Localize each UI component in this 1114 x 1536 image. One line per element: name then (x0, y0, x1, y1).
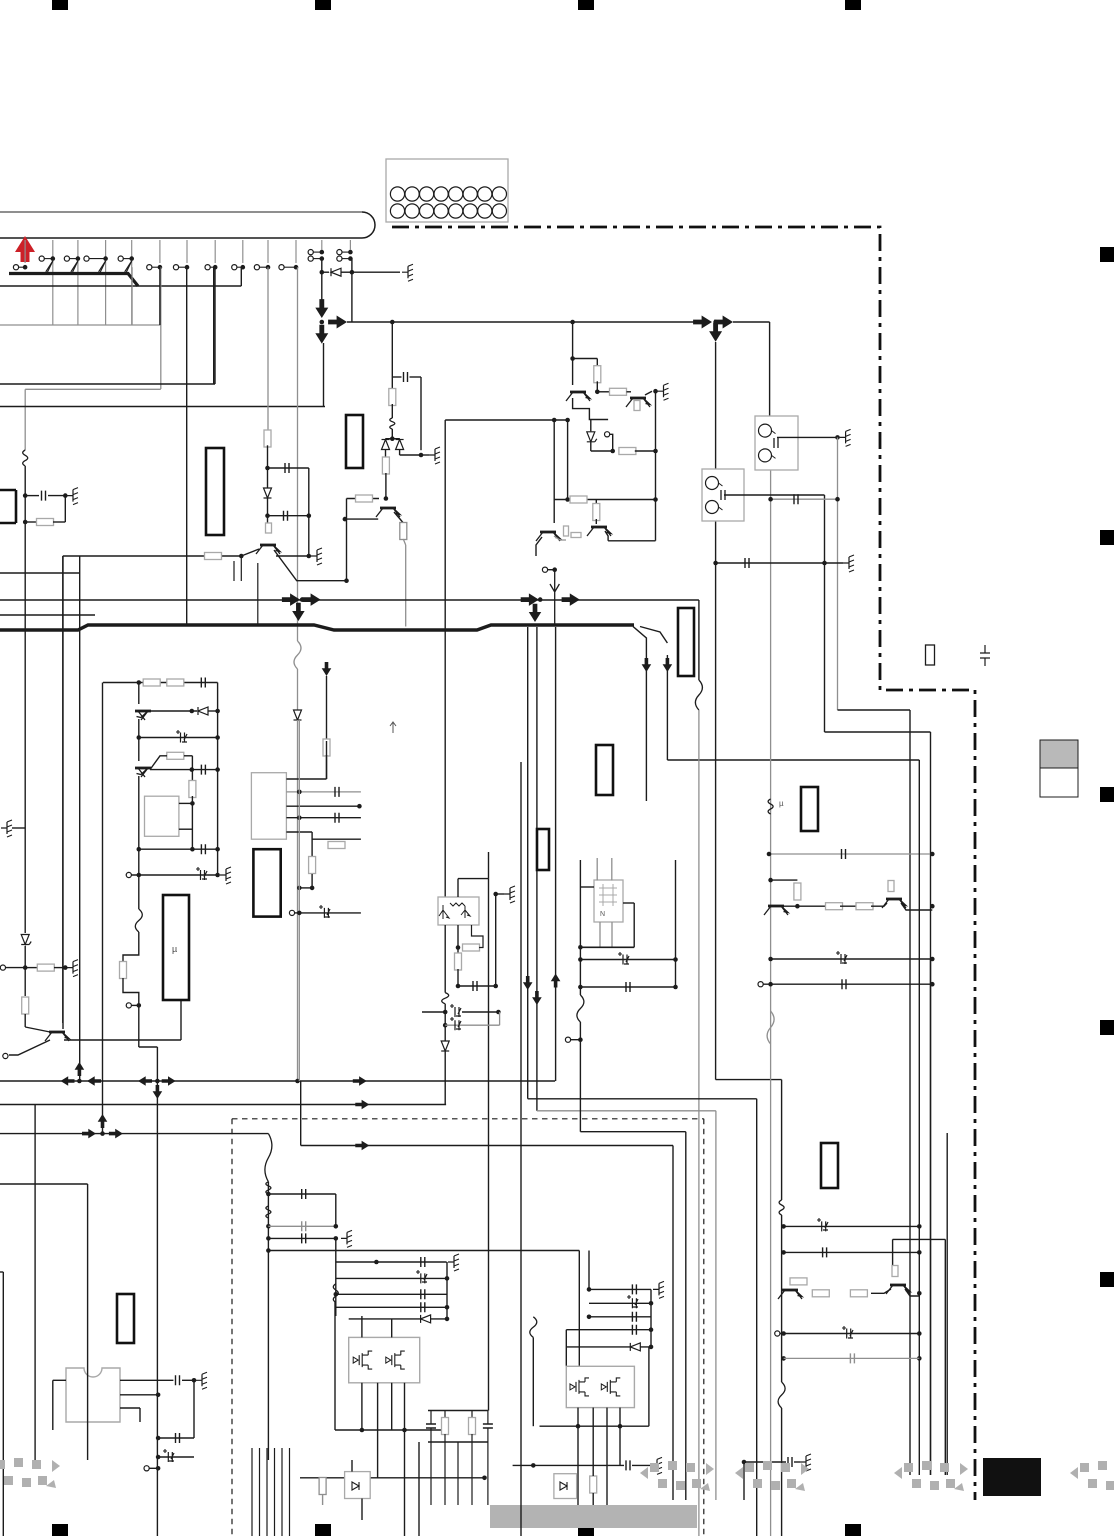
junction J24 (570, 320, 575, 325)
wire (918, 760, 920, 1475)
junction J118 (402, 1428, 407, 1433)
wire (139, 1046, 158, 1048)
junction J21 (320, 270, 325, 275)
signal arrow (562, 593, 580, 605)
pin P16 (0, 965, 5, 970)
wire (349, 240, 351, 250)
capacitor C4 (404, 372, 408, 382)
registration mark (1100, 787, 1114, 802)
junction J116 (445, 1317, 450, 1322)
wire (347, 498, 380, 500)
wire (400, 454, 421, 456)
pin P8 (205, 265, 210, 270)
wire (590, 442, 592, 451)
resistor R41 (564, 526, 569, 536)
junction J100 (578, 1037, 583, 1042)
ground (402, 264, 413, 281)
junction J99 (673, 985, 678, 990)
junction J9 (241, 265, 246, 270)
capacitor C13 (201, 844, 205, 854)
junction J20 (63, 965, 68, 970)
wire (597, 391, 609, 393)
flow arrow (550, 570, 559, 626)
wire (361, 1316, 363, 1337)
wire (24, 522, 26, 933)
resistor R5 (266, 523, 272, 533)
junction J66 (100, 1131, 105, 1136)
wire (784, 1357, 920, 1359)
wire (592, 1465, 594, 1476)
wire (260, 266, 269, 268)
resistor R22 (309, 857, 316, 874)
junction J137 (781, 1356, 786, 1361)
main power bus (0, 625, 634, 630)
wire (0, 406, 325, 408)
wire (156, 1047, 158, 1536)
wire (781, 1408, 783, 1536)
signal arrow (693, 316, 712, 329)
wire (457, 1442, 459, 1505)
capacitor C12 (201, 765, 205, 775)
wire (335, 1238, 337, 1316)
wire (471, 1434, 473, 1442)
junction J93 (496, 1010, 501, 1015)
wire (715, 1111, 717, 1500)
capacitor C2 (285, 463, 289, 473)
wire (488, 879, 490, 1411)
wire (444, 1051, 446, 1105)
signal arrow (87, 1076, 101, 1086)
inductor L1 (23, 450, 28, 466)
wire (784, 1225, 920, 1227)
capacitor C41 (817, 1218, 828, 1231)
wire (0, 1183, 88, 1185)
capacitor C20 (450, 1017, 461, 1030)
wire (540, 1425, 649, 1427)
line filter T2 (702, 469, 744, 521)
wire (77, 240, 79, 325)
ground (448, 1254, 459, 1271)
junction J128 (531, 1463, 536, 1468)
wire (596, 381, 598, 392)
junction J51 (835, 497, 840, 502)
signal arrow (529, 604, 541, 622)
junction J113 (445, 1276, 450, 1281)
junction J18 (23, 520, 28, 525)
resistor R23 (323, 739, 330, 756)
resistor R29 (812, 1290, 829, 1297)
signal arrow (663, 658, 673, 672)
junction J15 (348, 256, 353, 261)
wire (336, 1261, 447, 1263)
wire (100, 261, 106, 274)
wire (901, 903, 932, 910)
junction J85 (297, 886, 302, 891)
junction J120 (482, 1476, 487, 1481)
wire (0, 383, 215, 385)
wire (351, 259, 353, 322)
wire (138, 776, 140, 875)
diode D on gray rail (294, 710, 302, 720)
wire (650, 1289, 652, 1347)
wire (589, 1302, 651, 1304)
wire (580, 986, 675, 988)
wire (648, 1347, 650, 1426)
wire (645, 650, 647, 801)
wire (311, 832, 313, 856)
wire (592, 1493, 594, 1505)
wire (944, 1239, 946, 1475)
transistor Q4 (626, 398, 650, 407)
pin P24 (565, 1037, 570, 1042)
capacitor C19 (450, 1004, 461, 1017)
opto internals (439, 903, 470, 919)
wire (667, 759, 919, 761)
page reference mark (0, 1458, 60, 1488)
capacitor C28 (302, 1233, 306, 1243)
junction J106 (266, 1192, 271, 1197)
wire (138, 1005, 140, 1047)
wire (25, 388, 161, 390)
transistor Q8 (882, 899, 906, 908)
junction J44 (565, 497, 570, 502)
junction J60 (930, 957, 935, 962)
signal arrow (532, 991, 542, 1005)
wire (444, 925, 446, 993)
wire (208, 710, 218, 712)
wire (126, 261, 132, 274)
wire (430, 1428, 432, 1442)
wire (444, 1434, 446, 1442)
wire (893, 1238, 946, 1240)
ground (843, 555, 854, 572)
wire (191, 803, 193, 849)
capacitor C34 (483, 1424, 493, 1428)
junction J16 (23, 493, 28, 498)
wire (743, 1462, 745, 1500)
junction J57 (795, 904, 800, 909)
IC U3 (251, 773, 286, 840)
wire (341, 271, 352, 273)
wire (532, 1337, 534, 1426)
wire (99, 261, 106, 272)
junction J89 (456, 984, 461, 989)
ground (311, 548, 322, 565)
wire (410, 376, 422, 378)
capacitor C7 (842, 849, 846, 859)
wire (444, 1004, 446, 1041)
wire (695, 680, 702, 710)
pin P21 (126, 872, 131, 877)
wire (724, 494, 825, 496)
wire (210, 266, 215, 268)
capacitor C26 (302, 1189, 306, 1199)
wire (322, 1477, 324, 1479)
signal arrow (82, 1129, 96, 1139)
wire (214, 240, 216, 263)
ground (67, 488, 78, 505)
transistor Q1 (45, 1032, 69, 1041)
wire (640, 627, 667, 644)
wire (267, 516, 269, 531)
wire (139, 737, 218, 739)
transistor Q16 (376, 508, 400, 517)
junction J31 (307, 554, 312, 559)
wire (322, 1494, 324, 1505)
wire (0, 324, 161, 326)
transistor Q5 (587, 527, 611, 536)
wire (554, 499, 655, 501)
wire (458, 985, 496, 987)
junction J95 (578, 945, 583, 950)
wire (267, 267, 269, 432)
wire (404, 1383, 406, 1430)
junction J86 (297, 790, 302, 795)
wire (179, 266, 187, 268)
ground (658, 383, 669, 400)
signal arrow (98, 1114, 108, 1128)
wire (62, 556, 64, 1023)
capacitor C31 (421, 1289, 425, 1299)
wire (342, 258, 350, 260)
wire (394, 512, 403, 523)
wire (313, 258, 322, 260)
wire (589, 1288, 651, 1290)
wire (840, 905, 858, 907)
wire (418, 1442, 420, 1536)
svg-text:N: N (600, 911, 605, 918)
diode D4 (630, 1343, 640, 1351)
junction J46 (552, 567, 557, 572)
wire (471, 1411, 473, 1419)
wire (579, 860, 581, 947)
junction J108 (334, 1224, 339, 1229)
wire (63, 555, 242, 557)
wire (780, 1333, 784, 1335)
pin P11 (279, 265, 284, 270)
pin P25 (144, 1466, 149, 1471)
wire (237, 266, 243, 268)
capacitor C21 (618, 952, 629, 965)
inductor L5 (266, 1182, 271, 1194)
wire (300, 1081, 302, 1146)
resistor R20 (143, 679, 160, 686)
wire (377, 1383, 379, 1430)
wire (62, 556, 64, 1029)
wire (182, 1379, 194, 1381)
resistor R21 (167, 679, 184, 686)
wire (268, 1250, 579, 1252)
wire (24, 240, 26, 263)
junction J41 (653, 449, 658, 454)
junction J83 (297, 815, 302, 820)
wire (444, 1411, 446, 1419)
junction J48 (538, 597, 543, 602)
pin P7 (173, 265, 178, 270)
resistor R40 (400, 523, 407, 540)
line filter T1 (755, 416, 798, 470)
capacitor C3 (284, 511, 288, 521)
wire (442, 993, 449, 1004)
driver U5 (594, 880, 623, 922)
resistor R9 (356, 495, 373, 502)
wire (52, 240, 54, 325)
wire (771, 879, 798, 881)
resistor R7 (389, 389, 396, 406)
pin P12 (308, 250, 313, 255)
wire (783, 905, 828, 907)
wire (771, 958, 933, 960)
pin P22 (126, 1003, 131, 1008)
wire (767, 1011, 774, 1044)
junction J10 (266, 265, 271, 270)
gray label bar (490, 1505, 697, 1528)
signal arrow (355, 1141, 369, 1151)
wire (267, 445, 269, 487)
pin P19 (542, 567, 547, 572)
wire (763, 983, 932, 985)
wire (592, 1408, 594, 1466)
wire (299, 912, 361, 914)
registration mark (52, 1524, 68, 1536)
wire (323, 343, 325, 407)
registration mark (845, 0, 861, 10)
junction J64 (155, 1079, 160, 1084)
ground (220, 867, 231, 884)
part label box (678, 608, 694, 676)
capacitor C43 (842, 1326, 853, 1339)
wire (72, 261, 78, 274)
wire (871, 1289, 891, 1293)
capacitor C23 (176, 1375, 180, 1385)
IC U6 (notched) (66, 1368, 120, 1422)
registration mark (845, 1524, 861, 1536)
wire (611, 922, 613, 947)
capacitor C42 (823, 1247, 827, 1257)
wire (784, 1251, 920, 1253)
page reference mark (894, 1461, 968, 1491)
wire (391, 429, 393, 439)
wire (267, 499, 269, 516)
wire (351, 1460, 353, 1472)
junction J3 (103, 256, 108, 261)
resistor R11 (610, 388, 627, 395)
pin P14 (308, 256, 313, 261)
ground (172, 960, 183, 977)
junction J131 (917, 1224, 922, 1229)
wire (589, 1316, 651, 1318)
resistor R31 (590, 1476, 597, 1493)
junction J32 (390, 320, 395, 325)
wire (123, 932, 139, 962)
wire (528, 1098, 757, 1100)
wire (131, 267, 133, 325)
wire (139, 1408, 141, 1422)
junction J105 (156, 1466, 161, 1471)
junction J97 (673, 957, 678, 962)
wire (685, 1132, 687, 1500)
wire (268, 1225, 335, 1227)
junction J133 (917, 1250, 922, 1255)
inductor L3 (768, 799, 773, 814)
signal arrow (355, 1100, 369, 1110)
junction J70 (190, 709, 195, 714)
junction J58 (930, 904, 935, 909)
driver internals (599, 884, 617, 918)
wire (573, 358, 598, 360)
wire (744, 1461, 786, 1463)
wire (566, 1346, 651, 1348)
wire (346, 499, 348, 581)
junction J102 (156, 1393, 161, 1398)
capacitor C18 (473, 981, 477, 991)
wire (152, 266, 160, 268)
wire (824, 495, 826, 732)
signal arrow (315, 325, 328, 344)
wire (274, 550, 347, 581)
wire (672, 1146, 674, 1501)
pin P13 (337, 250, 342, 255)
junction J33 (390, 436, 395, 441)
capacitor C24 (176, 1433, 180, 1443)
registration mark (1100, 530, 1114, 545)
wire (53, 1379, 66, 1381)
wire (536, 627, 538, 1111)
wire (588, 1251, 590, 1291)
IC U2 (145, 796, 179, 836)
signal arrow (138, 1076, 152, 1086)
capacitor C1 (42, 491, 46, 501)
wire (577, 995, 584, 1022)
junction J77 (190, 847, 195, 852)
signal arrow (162, 1076, 176, 1086)
resistor R4 (264, 430, 271, 447)
junction J29 (239, 554, 244, 559)
wire (591, 450, 613, 452)
wire (138, 719, 140, 761)
resistor R17 (826, 903, 843, 910)
wire (580, 886, 594, 888)
wire (595, 500, 597, 506)
wire (284, 266, 296, 268)
wire (286, 791, 361, 793)
junction J81 (297, 790, 302, 795)
wire (655, 391, 657, 541)
wire (391, 1319, 393, 1337)
wire (530, 1317, 537, 1338)
junction J84 (310, 886, 315, 891)
junction J111 (266, 1248, 271, 1253)
wire (520, 762, 522, 1536)
wire (596, 359, 598, 368)
capacitor C14 (196, 867, 207, 880)
wire (265, 1134, 272, 1182)
wire (930, 959, 932, 1475)
wire (186, 267, 188, 626)
junction J126 (576, 1424, 581, 1429)
wire (905, 1289, 919, 1296)
capacitor C44 (850, 1353, 854, 1363)
wire (487, 1442, 489, 1505)
wire (12, 827, 25, 829)
junction J90 (493, 984, 498, 989)
wire (297, 267, 299, 641)
junction J63 (77, 1079, 82, 1084)
wire (251, 1448, 253, 1536)
wire (336, 1293, 447, 1295)
wire (946, 1133, 948, 1475)
junction J2 (76, 256, 81, 261)
